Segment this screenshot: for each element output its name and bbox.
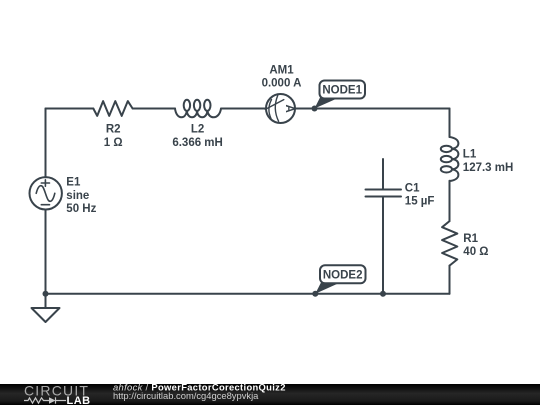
- resistor R2: [93, 101, 132, 116]
- wire R1 to bottom corner: [449, 266, 451, 294]
- wire top-left horizontal: [46, 108, 94, 110]
- junction node NODE2: [312, 291, 318, 297]
- resistor R1: [442, 221, 457, 266]
- junction node ground: [43, 291, 49, 297]
- wire R2 to L2: [133, 108, 175, 110]
- wire ground stem: [45, 294, 47, 308]
- logo resistor-diode glyph: [24, 397, 66, 403]
- footer bar: [0, 384, 540, 405]
- inductor L2: [175, 109, 221, 118]
- wire left vertical upper: [45, 109, 47, 178]
- inductor L1: [450, 137, 459, 181]
- junction node C1-bottom: [380, 291, 386, 297]
- capacitor C1 branch wire top: [382, 159, 384, 190]
- flag NODE2: [315, 265, 365, 294]
- ammeter AM1: [266, 94, 295, 123]
- capacitor C1: [366, 190, 402, 197]
- svg-text:http://circuitlab.com/cg4gce8y: http://circuitlab.com/cg4gce8ypvkja: [113, 390, 259, 401]
- voltage source E1: [30, 177, 62, 209]
- svg-text:LAB: LAB: [67, 395, 91, 405]
- ground: [32, 308, 60, 322]
- wire bottom horizontal: [46, 293, 450, 295]
- wire right vertical upper: [449, 109, 451, 138]
- wire L1 to R1: [449, 181, 451, 221]
- wire L2 to AM1: [221, 108, 266, 110]
- wire AM1 to NODE1 junction and corner: [295, 108, 450, 110]
- flag NODE1: [315, 81, 366, 109]
- capacitor C1 branch wire bottom: [382, 197, 384, 294]
- junction node NODE1: [312, 106, 318, 112]
- wire E1 to ground node: [45, 210, 47, 294]
